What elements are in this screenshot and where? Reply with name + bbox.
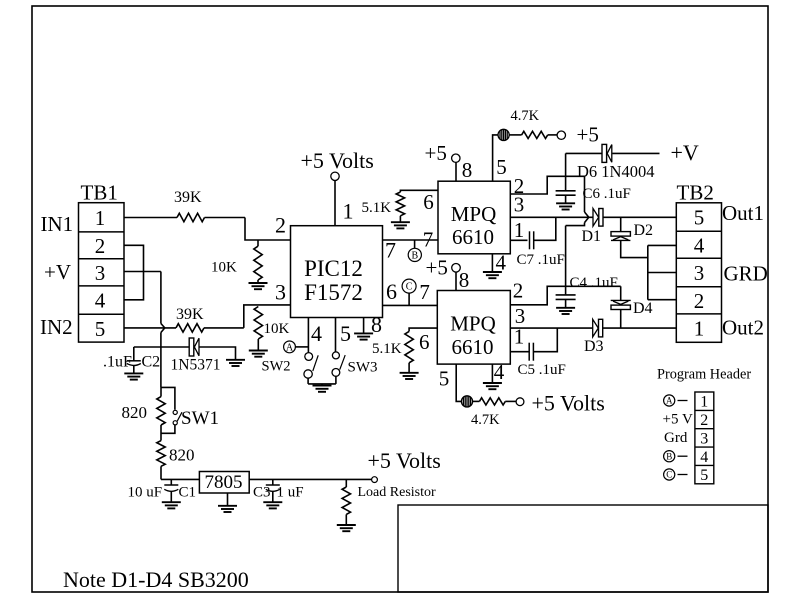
wire PIC pin5 down <box>335 318 337 353</box>
svg-text:A: A <box>666 396 673 406</box>
terminal circle 4.7K lower +5 <box>516 398 524 406</box>
wire node A to SW2 <box>295 346 308 348</box>
node +V output label <box>671 140 699 165</box>
header node A dash <box>678 400 688 402</box>
svg-text:4: 4 <box>494 360 505 384</box>
svg-text:C4 .1uF: C4 .1uF <box>570 275 618 291</box>
wire 4.7K upper to terminal <box>548 134 558 136</box>
wire C6 to ground <box>565 195 567 203</box>
wire C4 riser <box>565 226 567 295</box>
svg-text:5.1K: 5.1K <box>372 341 402 357</box>
wire MPQ1 pin4 stub <box>491 254 493 272</box>
svg-text:4.7K: 4.7K <box>511 108 540 124</box>
PIC pin 8 number <box>371 312 382 337</box>
svg-text:SW2: SW2 <box>262 359 291 375</box>
svg-text:10K: 10K <box>264 321 290 337</box>
C1 ref label <box>179 485 197 501</box>
diode D4 <box>611 300 631 309</box>
svg-text:B: B <box>666 451 672 461</box>
MPQ2 pin 4 number <box>494 360 505 384</box>
C3 value label <box>277 485 304 501</box>
svg-text:6: 6 <box>386 279 397 304</box>
terminal block TB2 <box>676 203 721 342</box>
MPQ1 pin 6 number <box>423 190 434 214</box>
svg-text:1: 1 <box>694 317 705 341</box>
svg-text:820: 820 <box>122 403 148 422</box>
MPQ1 pin 8 number <box>462 158 473 182</box>
capacitor C5 <box>529 343 533 361</box>
header Grd label <box>664 430 688 446</box>
ground under 7805 <box>218 506 237 512</box>
D6 value label <box>577 162 654 181</box>
program header pin 3 number <box>700 430 708 447</box>
wire 5.1K upper to ground <box>399 216 401 222</box>
wire C2 to ground <box>133 366 135 374</box>
svg-text:D1: D1 <box>582 228 602 245</box>
svg-text:4: 4 <box>694 233 705 257</box>
svg-text:5: 5 <box>496 155 507 179</box>
D2 ref label <box>634 222 654 239</box>
connector circle hatched upper <box>498 129 509 140</box>
svg-text:1: 1 <box>95 206 106 230</box>
ground under MPQ1 pin4 <box>483 272 502 278</box>
svg-text:SW3: SW3 <box>348 360 378 376</box>
regulator 7805 box <box>199 472 249 494</box>
ground under C4 <box>556 308 575 314</box>
svg-text:3: 3 <box>694 261 705 285</box>
svg-text:8: 8 <box>459 268 470 292</box>
ground under load resistor <box>337 525 356 531</box>
capacitor C7 <box>530 231 534 249</box>
resistor 10K lower <box>254 307 262 340</box>
node C circle <box>402 279 416 293</box>
svg-text:MPQ: MPQ <box>450 312 496 336</box>
+5 Volts PIC label <box>301 148 374 173</box>
wire C6 to D6 <box>566 152 602 154</box>
ground under 10K upper <box>249 283 268 289</box>
wire bus to TB2-4 <box>648 244 677 246</box>
wire 820 junction <box>160 387 162 440</box>
header node B circle <box>664 451 675 462</box>
TB1 pin 5 number <box>95 317 106 341</box>
SW3 label <box>348 360 378 376</box>
5.1K lower value label <box>372 341 402 357</box>
PIC pin 5 number <box>340 321 351 346</box>
svg-text:1: 1 <box>343 199 354 224</box>
header node C dash <box>678 474 688 476</box>
wire bus to TB2-2 <box>648 299 677 301</box>
svg-text:3: 3 <box>95 261 106 285</box>
svg-text:6: 6 <box>419 330 430 354</box>
wire SW1 branch bottom <box>161 425 175 433</box>
F1572 label <box>304 280 363 305</box>
wire TB2 bus vertical <box>647 245 649 299</box>
svg-text:7805: 7805 <box>205 472 243 493</box>
5.1K upper value label <box>362 200 392 216</box>
wire D4 stub top <box>620 286 622 300</box>
wire D3 to TB2-1 <box>603 327 676 329</box>
svg-text:+5 Volts: +5 Volts <box>532 391 605 416</box>
IC U3 MPQ6610 box <box>437 291 510 365</box>
PIC pin 1 number <box>343 199 354 224</box>
node IN2 label <box>40 315 73 339</box>
svg-text:1: 1 <box>700 394 708 411</box>
39K lower value label <box>176 306 204 323</box>
C5 value label <box>518 362 566 378</box>
terminal circle 4.7K upper +5 <box>557 131 565 139</box>
TB2 pin 5 number <box>694 206 705 230</box>
header node C circle <box>664 469 675 480</box>
svg-text:2: 2 <box>513 279 524 303</box>
svg-text:D6 1N4004: D6 1N4004 <box>577 162 654 181</box>
svg-text:4: 4 <box>95 289 106 313</box>
wire riser to PIC pin2 <box>245 218 291 241</box>
wire C5 to riser <box>533 328 557 352</box>
wire TB1-2 to TB1-4 jumper <box>124 245 144 299</box>
wire rail left <box>161 478 199 480</box>
wire MPQ2 pin2 <box>510 286 620 305</box>
diode D3 <box>593 319 603 337</box>
svg-text:3: 3 <box>275 280 286 305</box>
svg-text:C2: C2 <box>142 354 161 371</box>
wire SW1 branch top <box>161 387 175 409</box>
svg-text:6: 6 <box>423 190 434 214</box>
header node B dash <box>678 455 688 457</box>
load resistor <box>342 487 350 514</box>
wire to 4.7K upper <box>509 134 521 136</box>
wire MPQ2 pin6 <box>409 328 438 331</box>
svg-text:39K: 39K <box>176 306 204 323</box>
svg-text:F1572: F1572 <box>304 280 363 305</box>
wire C3 stub <box>272 479 274 484</box>
wire MPQ1 pin1 to C7 <box>510 239 527 241</box>
switch SW1 <box>173 410 182 425</box>
TB1 pin 2 number <box>95 234 106 258</box>
Load Resistor label <box>358 485 436 500</box>
4.7K upper value label <box>511 108 540 124</box>
wire 10K to ground <box>257 280 259 283</box>
wire TB1-3 +V to riser <box>124 271 161 273</box>
820 lower value label <box>169 446 195 465</box>
ground under 10K lower <box>249 351 268 357</box>
header node A circle <box>664 395 675 406</box>
program header pin 5 number <box>700 467 708 484</box>
+5 label MPQ1 <box>425 141 447 165</box>
resistor 4.7K upper <box>522 131 548 138</box>
wire hop over D1 wire <box>585 212 589 223</box>
MPQ2 pin 8 number <box>459 268 470 292</box>
svg-text:10 uF: 10 uF <box>128 485 163 501</box>
switch SW3 <box>332 352 345 376</box>
4.7K lower value label <box>471 412 500 428</box>
svg-text:5: 5 <box>700 467 708 484</box>
svg-text:6610: 6610 <box>452 225 494 249</box>
svg-text:4: 4 <box>700 449 708 466</box>
wire MPQ2 pin8 stub <box>455 272 457 290</box>
wire MPQ2 pin1 to C5 <box>510 351 529 353</box>
svg-text:C5 .1uF: C5 .1uF <box>518 362 566 378</box>
wire C2 zener horizontal <box>134 346 189 348</box>
C7 value label <box>517 252 565 268</box>
6610 lower label <box>452 335 494 359</box>
svg-text:Load Resistor: Load Resistor <box>358 485 436 500</box>
svg-text:Note D1-D4 SB3200: Note D1-D4 SB3200 <box>63 567 249 592</box>
svg-text:GRD: GRD <box>724 262 768 286</box>
+5 label MPQ2 <box>426 256 448 280</box>
svg-text:6610: 6610 <box>452 335 494 359</box>
capacitor C3 <box>266 485 280 491</box>
wire 10K top stub <box>257 240 259 246</box>
C3 ref label <box>253 485 271 501</box>
wire MPQ1 pin3 to D1 <box>510 216 593 218</box>
wire C6 stub <box>565 153 567 190</box>
wire node B stub <box>414 240 416 248</box>
svg-text:+5: +5 <box>425 141 447 165</box>
svg-text:+5 Volts: +5 Volts <box>368 448 441 473</box>
ground under switches <box>313 386 332 392</box>
wire TB1-1 to 39K <box>124 217 177 219</box>
connector circle hatched lower <box>461 396 472 407</box>
svg-text:5: 5 <box>694 206 705 230</box>
D1 ref label <box>582 228 602 245</box>
MPQ1 pin 4 number <box>495 251 506 275</box>
wire D4 to Out2 wire <box>620 310 622 329</box>
TB2 pin 3 number <box>694 261 705 285</box>
wire to 4.7K lower <box>473 400 480 402</box>
wire switch ground stub <box>321 384 323 386</box>
svg-text:+V: +V <box>671 140 699 165</box>
svg-text:C1: C1 <box>179 485 197 501</box>
svg-text:PIC12: PIC12 <box>304 256 363 281</box>
terminal block TB1 <box>79 203 125 342</box>
svg-text:A: A <box>286 343 294 354</box>
title block box <box>398 505 768 592</box>
wire D1 to TB2-5 <box>603 216 676 218</box>
capacitor C4 <box>556 295 576 300</box>
MPQ1 pin 2 number <box>514 174 525 198</box>
zener diode 1N5371 <box>189 338 199 356</box>
wire node C stub <box>408 293 410 305</box>
svg-text:3: 3 <box>514 193 525 217</box>
1N5371 value label <box>171 357 221 374</box>
wire TB1-5 to 39K lower <box>124 327 176 329</box>
MPQ1 pin 7 number <box>423 228 434 252</box>
switch SW2 <box>304 353 318 379</box>
svg-text:D2: D2 <box>634 222 654 239</box>
svg-text:2: 2 <box>694 289 705 313</box>
wire zener to ground riser <box>199 347 235 360</box>
program header pin 2 number <box>700 412 708 429</box>
10K lower value label <box>264 321 290 337</box>
svg-text:2: 2 <box>95 234 106 258</box>
node +V label <box>44 260 71 284</box>
Program Header title <box>657 367 751 383</box>
svg-text:2: 2 <box>700 412 708 429</box>
wire MPQ1 pin2 <box>510 176 584 212</box>
MPQ2 pin 7 number <box>419 280 430 304</box>
svg-text:4: 4 <box>311 321 322 346</box>
svg-text:TB2: TB2 <box>677 181 714 205</box>
IC U1 PIC12F1572 box <box>291 226 383 318</box>
wire C7 to riser <box>534 217 556 240</box>
PIC pin 7 number <box>385 238 396 263</box>
wire hop to C4 riser <box>566 223 585 226</box>
wire +V vertical upper <box>160 272 162 324</box>
diode D6 <box>602 144 612 162</box>
MPQ1 pin 3 number <box>514 193 525 217</box>
SW2 label <box>262 359 291 375</box>
svg-text:7: 7 <box>419 280 430 304</box>
node B circle <box>408 248 421 261</box>
MPQ2 pin 6 number <box>419 330 430 354</box>
svg-text:C6 .1uF: C6 .1uF <box>583 186 631 202</box>
capacitor C1 <box>164 485 178 491</box>
wire C2 stub <box>133 347 135 361</box>
svg-text:10K: 10K <box>211 260 237 276</box>
svg-text:TB1: TB1 <box>81 181 118 205</box>
wire SW3 bottom <box>335 376 337 384</box>
svg-text:Program Header: Program Header <box>657 367 751 383</box>
C6 value label <box>583 186 631 202</box>
TB2 pin 1 number <box>694 317 705 341</box>
wire MPQ2 pin5 down <box>456 364 461 401</box>
svg-text:5: 5 <box>95 317 106 341</box>
resistor 5.1K lower <box>405 331 413 362</box>
MPQ2 pin 2 number <box>513 279 524 303</box>
wire PIC pin7 to MPQ1 pin7 <box>383 239 438 241</box>
ground under C3 <box>263 502 282 508</box>
wire D2 to TB2 bus <box>621 240 648 257</box>
svg-text:D4: D4 <box>633 300 653 317</box>
svg-text:4: 4 <box>495 251 506 275</box>
6610 upper label <box>452 225 494 249</box>
node IN1 label <box>41 212 74 236</box>
svg-text:IN2: IN2 <box>40 315 73 339</box>
wire C3 to ground <box>272 491 274 502</box>
wire D6 to +V <box>613 152 660 154</box>
svg-text:5.1K: 5.1K <box>362 200 392 216</box>
+5 label 4.7K upper <box>577 123 599 147</box>
D4 ref label <box>633 300 653 317</box>
ground under PIC pin8 <box>354 333 373 339</box>
SW1 label <box>181 408 219 429</box>
wire MPQ1 pin8 stub <box>455 162 457 181</box>
resistor 39K lower <box>176 324 204 332</box>
wire MPQ2 pin3 to D3 <box>510 327 592 329</box>
TB1 pin 4 number <box>95 289 106 313</box>
wire switch ground bus <box>308 383 336 385</box>
svg-text:2: 2 <box>275 213 286 238</box>
diode D1 <box>593 209 603 227</box>
wire MPQ2 pin4 stub <box>491 364 493 383</box>
node A circle <box>284 341 296 354</box>
MPQ lower label <box>450 312 496 336</box>
program header pin 4 number <box>700 449 708 466</box>
program header connector <box>695 392 714 484</box>
820 upper value label <box>122 403 148 422</box>
capacitor C6 <box>556 191 576 195</box>
svg-text:C7 .1uF: C7 .1uF <box>517 252 565 268</box>
PIC pin 4 number <box>311 321 322 346</box>
wire hop over IN2 wire <box>161 324 165 333</box>
svg-text:B: B <box>411 251 418 262</box>
svg-text:39K: 39K <box>174 189 202 206</box>
resistor 4.7K lower <box>479 398 505 405</box>
TB2 pin 2 number <box>694 289 705 313</box>
header +5 V label <box>663 412 693 428</box>
TB2 pin 4 number <box>694 233 705 257</box>
wire MPQ1 pin5 up <box>493 135 498 181</box>
PIC pin 2 number <box>275 213 286 238</box>
svg-text:8: 8 <box>462 158 473 182</box>
wire SW2 bottom <box>307 378 309 384</box>
39K upper value label <box>174 189 202 206</box>
svg-text:1N5371: 1N5371 <box>171 357 221 374</box>
ground under C2 <box>124 373 143 379</box>
TB1 pin 3 number <box>95 261 106 285</box>
wire PIC pin1 supply <box>334 181 336 226</box>
wire C1 to ground <box>170 491 172 502</box>
svg-text:5: 5 <box>340 321 351 346</box>
resistor 820 lower <box>157 441 165 467</box>
ground under MPQ2 pin4 <box>483 383 502 389</box>
svg-text:Grd: Grd <box>664 430 688 446</box>
wire PIC pin4 down <box>307 318 309 353</box>
TB2 label <box>677 181 714 205</box>
wire MPQ1 pin6 <box>400 190 437 192</box>
D3 ref label <box>584 338 604 355</box>
wire riser to PIC pin3 <box>244 305 291 328</box>
node Out1 label <box>722 201 764 225</box>
TB1 label <box>81 181 118 205</box>
resistor 820 upper <box>157 397 165 425</box>
wire load resistor stub <box>345 479 347 487</box>
terminal circle MPQ2 +5 <box>452 264 461 273</box>
svg-text:3: 3 <box>700 430 708 447</box>
program header pin 1 number <box>700 394 708 411</box>
MPQ2 pin 3 number <box>515 304 526 328</box>
wire 10K lower to ground <box>257 339 259 351</box>
wire PIC pin8 stub <box>363 318 365 334</box>
MPQ2 pin 5 number <box>439 367 450 391</box>
resistor 39K upper <box>177 213 205 221</box>
wire C1 stub <box>170 479 172 484</box>
10K upper value label <box>211 260 237 276</box>
svg-text:1 uF: 1 uF <box>277 485 304 501</box>
ground under 5.1K lower <box>400 373 419 379</box>
svg-text:C: C <box>406 282 413 293</box>
ground under 5.1K upper <box>391 222 410 228</box>
svg-text:+5: +5 <box>577 123 599 147</box>
ground under zener wire <box>226 360 245 366</box>
svg-text:820: 820 <box>169 446 195 465</box>
svg-text:C3: C3 <box>253 485 271 501</box>
svg-text:1: 1 <box>514 218 525 242</box>
svg-text:7: 7 <box>423 228 434 252</box>
wire 5.1K lower to ground <box>408 363 410 372</box>
svg-text:.1uF: .1uF <box>103 354 132 371</box>
C1 value label <box>128 485 163 501</box>
node GRD label <box>724 262 768 286</box>
PIC12 label <box>304 256 363 281</box>
wire D2 stub top <box>620 217 622 231</box>
wire 820 to rail <box>160 466 162 479</box>
wire rail right <box>249 478 372 480</box>
svg-text:Out2: Out2 <box>722 316 764 340</box>
capacitor C2 <box>127 361 141 366</box>
svg-text:5: 5 <box>439 367 450 391</box>
wire bus to TB2-3 <box>648 272 677 274</box>
